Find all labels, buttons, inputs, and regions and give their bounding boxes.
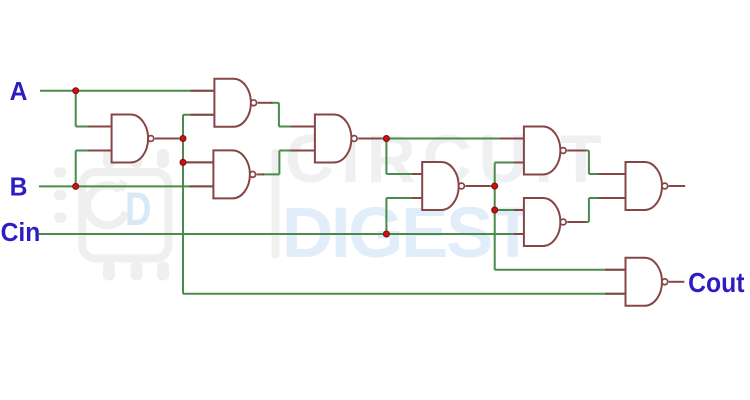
junction node N4 at U5 output [492, 183, 498, 189]
svg-text:A: A [10, 77, 28, 106]
junction node Cin [383, 231, 389, 237]
watermark chip logo top pins [103, 149, 169, 168]
wire net A drop to U1 [75, 91, 77, 127]
nand gate U1 (A NAND B) [88, 115, 179, 163]
wire net N1 into U3 top input [183, 161, 213, 163]
wire net XOR1 drop to U5 [385, 139, 387, 175]
wire net Cin horizontal [39, 233, 524, 235]
nand gate U6 [500, 127, 586, 175]
wire net N5 vertical [588, 151, 590, 175]
watermark chip logo inner trace ring [87, 181, 126, 225]
nand gate U3 (N1, B) [183, 150, 264, 198]
wire net N1 long run to U9 bottom input [183, 293, 626, 295]
wire net N5 into U8 top input [589, 173, 626, 175]
wire net XOR1 horizontal to U6 [381, 138, 524, 140]
junction node A [73, 88, 79, 94]
wire net N5 from U6 output [580, 150, 589, 152]
junction node N1 at U3 input [180, 159, 186, 165]
wire net N6 into U8 bottom input [589, 197, 626, 199]
wire net B into U1 bottom input [76, 150, 112, 152]
wire net N2 from U2 output [271, 102, 279, 104]
wire net N4 gap before junction [490, 185, 495, 187]
wire net Cin into U5 bottom input [386, 197, 422, 199]
nand gate U7 [514, 198, 586, 246]
wire net B horizontal [39, 185, 213, 187]
watermark chip logo blue D [125, 183, 151, 235]
watermark text DIGEST [282, 194, 534, 273]
wire net N1 into U2 bottom input [183, 114, 214, 116]
nand gate U8 (Sum output) [599, 162, 686, 210]
wire net N4 into U7 top input [495, 209, 524, 211]
wire net N6 vertical [588, 198, 590, 222]
wire net B rise to U1 [75, 151, 77, 187]
wire net N4 vertical bus [494, 163, 496, 270]
watermark text CIRCUIT [285, 121, 608, 197]
wire net N2 vertical [278, 103, 280, 127]
nand gate U2 (A, N1) [190, 79, 272, 127]
wire net N1 vertical bus [182, 115, 184, 294]
wire net N2 into U4 top input [279, 126, 315, 128]
wire net N4 long run to U9 top input [495, 269, 626, 271]
wire net XOR1 into U5 top input [386, 173, 422, 175]
junction node N1 at U1 output [180, 136, 186, 142]
wire net A into U1 top input [76, 126, 112, 128]
wire net N3 into U4 bottom input [279, 150, 315, 152]
junction node XOR1 at U4 output [383, 136, 389, 142]
wire net Cin rise to U5 [385, 198, 387, 234]
svg-text:B: B [10, 173, 28, 202]
svg-text:D: D [125, 183, 151, 235]
svg-text:Cout: Cout [688, 267, 745, 299]
wire net A horizontal [40, 90, 214, 92]
watermark separator bar [272, 149, 280, 258]
junction node N4 at U7 input [492, 207, 498, 213]
junction node B [73, 183, 79, 189]
wire net N1 gap before junction [179, 138, 184, 140]
watermark chip logo body [82, 172, 168, 258]
nand gate U9 (Cout output) [605, 258, 684, 306]
watermark chip logo bottom pins [103, 262, 169, 281]
nand gate U4 (XOR output A^B) [291, 115, 381, 163]
svg-text:Cin: Cin [1, 218, 41, 247]
nand gate U5 (A^B NAND Cin) [412, 162, 489, 210]
wire net N4 into U6 bottom input [495, 162, 524, 164]
wire net N6 from U7 output [580, 221, 589, 223]
watermark chip logo left pins [54, 167, 67, 223]
wire net N3 vertical [278, 151, 280, 175]
wire net N3 from U3 output [262, 173, 279, 175]
